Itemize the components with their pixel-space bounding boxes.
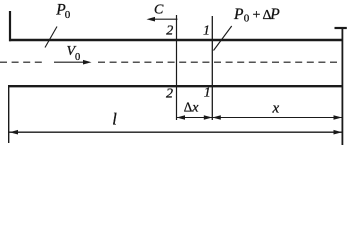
svg-text:C: C [154, 2, 164, 17]
dimension dx [177, 115, 213, 120]
left extension line (bottom) [8, 85, 10, 143]
leader line for P0 [45, 27, 57, 48]
left inlet flange (top) [9, 11, 11, 41]
svg-text:2: 2 [166, 87, 173, 102]
pipe top wall [9, 39, 342, 41]
dimension x [212, 115, 342, 120]
wave speed arrow C [147, 17, 178, 22]
svg-text:1: 1 [203, 24, 210, 39]
dimension l [9, 130, 342, 135]
svg-text:Δ: Δ [184, 99, 192, 114]
leader line for P0+dP [214, 26, 232, 51]
svg-text:x: x [191, 100, 199, 115]
svg-text:P: P [233, 6, 244, 23]
svg-text:x: x [272, 100, 280, 116]
svg-text:+: + [253, 8, 261, 23]
control surface line 2 [176, 15, 178, 120]
svg-text:0: 0 [75, 52, 80, 63]
pipe bottom wall [8, 85, 342, 87]
svg-text:l: l [112, 110, 117, 129]
svg-text:2: 2 [166, 24, 173, 39]
svg-text:0: 0 [65, 9, 71, 21]
right end wall cap [335, 27, 347, 29]
centerline (dashed axis, right of velocity arrow) [98, 61, 342, 63]
svg-text:0: 0 [244, 12, 250, 24]
svg-text:P: P [269, 6, 280, 23]
control surface line 1 [211, 16, 213, 120]
svg-text:1: 1 [204, 86, 211, 101]
right end wall (valve) [341, 27, 343, 145]
velocity arrow V0 [54, 60, 92, 65]
centerline (dashed axis, left of velocity arrow) [0, 61, 46, 63]
